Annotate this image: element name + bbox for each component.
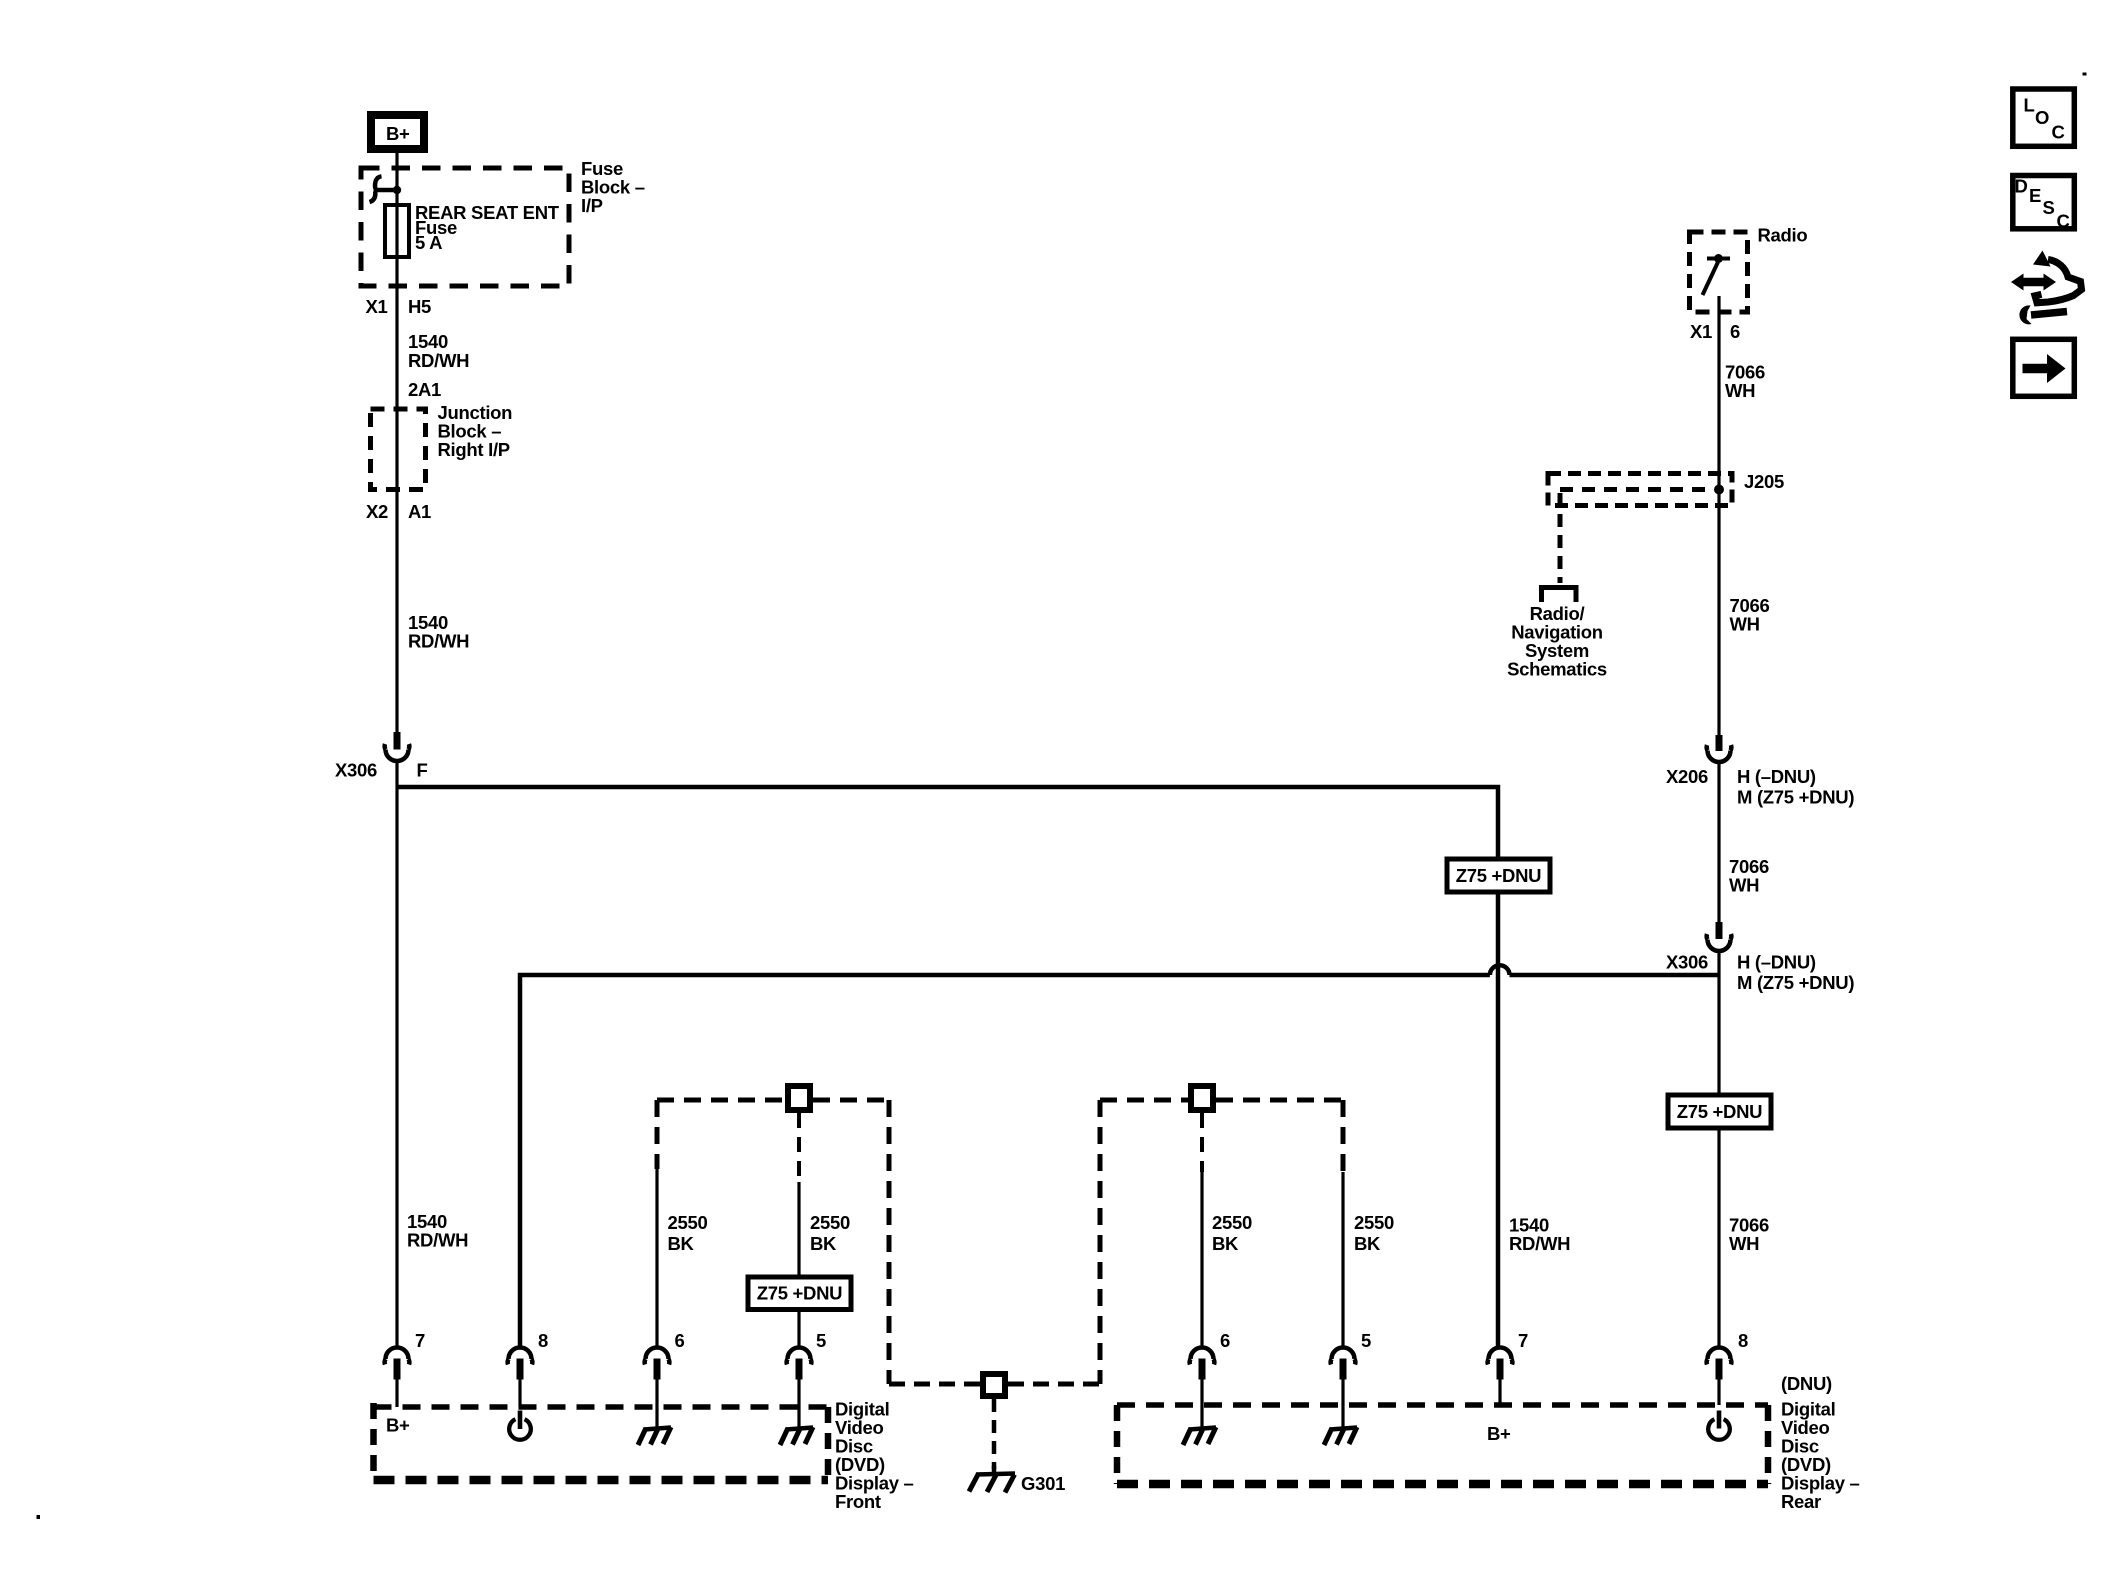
ground symbol rear pin 5 (1324, 1405, 1357, 1445)
svg-text:L: L (2024, 95, 2035, 116)
svg-text:RD/WH: RD/WH (408, 350, 469, 371)
front pin 8 (508, 1330, 548, 1407)
svg-text:6: 6 (1220, 1330, 1230, 1351)
ground G301 (969, 1466, 1065, 1494)
wire Z75 to rear pin 7 (1496, 892, 1501, 1347)
svg-text:2550: 2550 (810, 1212, 850, 1233)
wire fuse block to junction block (395, 287, 398, 493)
wire Z75 box 2 to front pin 5 (797, 1310, 800, 1348)
scan speck top right (2083, 73, 2087, 76)
svg-text:BK: BK (668, 1233, 695, 1254)
svg-text:5: 5 (816, 1330, 826, 1351)
svg-text:H (–DNU): H (–DNU) (1737, 766, 1816, 787)
ground symbol front pin 5 (780, 1407, 813, 1445)
svg-text:E: E (2029, 185, 2041, 206)
svg-text:D: D (2015, 176, 2028, 197)
svg-text:G301: G301 (1021, 1473, 1065, 1494)
svg-text:7: 7 (1518, 1330, 1528, 1351)
svg-text:Front: Front (835, 1491, 881, 1512)
svg-text:M (Z75 +DNU): M (Z75 +DNU) (1737, 787, 1854, 808)
wire branch X306 H to front pin 8 with hop (520, 965, 1719, 1347)
svg-text:8: 8 (1738, 1330, 1748, 1351)
wire label 7066 WH (upper) (1725, 362, 1765, 402)
connector labels X1 H5 (365, 296, 431, 317)
svg-text:WH: WH (1725, 380, 1755, 401)
svg-text:Z75 +DNU: Z75 +DNU (1677, 1101, 1763, 1122)
bus bar tap symbol (370, 176, 402, 202)
wire label 1540 RD/WH (upper) (408, 331, 469, 371)
DVD rear display label (1781, 1399, 1860, 1513)
wire Z75 box 3 to rear pin 8 (1717, 1128, 1720, 1347)
wire branch X306 F to Z75 (horizontal) (397, 787, 1498, 859)
wire label 1540 RD/WH (middle) (408, 612, 469, 652)
svg-text:X1: X1 (1690, 321, 1712, 342)
wire radio to X206 (1717, 296, 1720, 735)
wire label 1540 RD/WH (rear lower) (1509, 1215, 1570, 1255)
wire B+ box to fuse (395, 153, 398, 287)
ground symbol rear pin 6 (1183, 1405, 1216, 1445)
connector labels X2 A1 (366, 501, 431, 522)
wire label 7066 WH (rear lower) (1729, 1215, 1769, 1255)
DESC reference box (2013, 176, 2075, 232)
svg-text:8: 8 (538, 1330, 548, 1351)
wire label 2550 BK (front left) (668, 1212, 708, 1254)
svg-text:S: S (2043, 197, 2055, 218)
svg-text:WH: WH (1729, 875, 1759, 896)
rear pin 8 (1707, 1330, 1748, 1405)
svg-text:2550: 2550 (1212, 1212, 1252, 1233)
svg-text:2A1: 2A1 (408, 379, 441, 400)
svg-text:J205: J205 (1744, 471, 1784, 492)
svg-text:5 A: 5 A (415, 232, 442, 253)
svg-text:1540: 1540 (408, 331, 448, 352)
front pin 7 (385, 1330, 425, 1407)
fuse REAR SEAT ENT 5 A (385, 202, 560, 257)
front pin 6 (645, 1330, 685, 1407)
scan speck bottom left (37, 1515, 41, 1519)
G301 splice box (983, 1374, 1005, 1396)
jump navigation icon (2011, 251, 2082, 325)
svg-text:6: 6 (1730, 321, 1740, 342)
svg-text:O: O (2035, 107, 2049, 128)
connector X306 H (1666, 922, 1854, 993)
svg-text:2550: 2550 (1354, 1212, 1394, 1233)
power symbol front (509, 1411, 531, 1440)
DVD rear display dashed box (1117, 1402, 1768, 1408)
wire junction block to X306 (395, 493, 398, 732)
svg-text:RD/WH: RD/WH (1509, 1233, 1570, 1254)
junction J205 dashed box (1548, 471, 1784, 583)
svg-text:I/P: I/P (581, 195, 603, 216)
connector X306 F (335, 732, 428, 781)
wire rear pin 5 (1341, 1172, 1344, 1347)
rear ground dashed box (1100, 1100, 1343, 1384)
wire X306 H to Z75 box 3 (1717, 952, 1720, 1095)
svg-text:B+: B+ (386, 1415, 410, 1436)
front ground dashed box (657, 1100, 889, 1384)
svg-text:Z75 +DNU: Z75 +DNU (1456, 865, 1542, 886)
svg-text:X1: X1 (365, 296, 387, 317)
svg-text:F: F (417, 760, 428, 781)
radio navigation reference label (1507, 603, 1607, 680)
svg-text:M (Z75 +DNU): M (Z75 +DNU) (1737, 972, 1854, 993)
dashed wire G301 (992, 1399, 997, 1469)
svg-text:Right I/P: Right I/P (438, 439, 510, 460)
forward arrow box (2013, 339, 2075, 396)
svg-text:C: C (2057, 211, 2070, 232)
radio dashed box (1690, 232, 1748, 312)
svg-text:Schematics: Schematics (1507, 659, 1607, 680)
svg-text:WH: WH (1729, 1233, 1759, 1254)
svg-text:BK: BK (810, 1233, 837, 1254)
svg-text:RD/WH: RD/WH (408, 631, 469, 652)
svg-text:B+: B+ (1487, 1423, 1511, 1444)
svg-text:X2: X2 (366, 501, 388, 522)
dashed wire rear splice to pin 6 (1200, 1113, 1204, 1347)
splice box front (788, 1086, 810, 1110)
rear pin 6 (1190, 1330, 1230, 1405)
front pin 5 (787, 1330, 826, 1407)
svg-text:6: 6 (675, 1330, 685, 1351)
fuse block label (581, 158, 645, 216)
svg-text:WH: WH (1730, 614, 1760, 635)
svg-text:X306: X306 (335, 760, 377, 781)
Z75 +DNU box 1 (1447, 859, 1550, 892)
power symbol rear (1708, 1411, 1730, 1440)
wire label 7066 WH (second) (1730, 595, 1770, 635)
svg-text:H5: H5 (408, 296, 431, 317)
wire label 2550 BK (front right) (810, 1212, 850, 1254)
svg-text:5: 5 (1361, 1330, 1371, 1351)
svg-text:Rear: Rear (1781, 1491, 1821, 1512)
wire front pin 6 (655, 1169, 658, 1347)
Z75 +DNU box 2 (748, 1277, 851, 1310)
svg-text:H (–DNU): H (–DNU) (1737, 952, 1816, 973)
wire X206 to X306 (1717, 763, 1720, 922)
wire label 7066 WH (third) (1729, 856, 1769, 896)
svg-text:X306: X306 (1666, 952, 1708, 973)
svg-text:2550: 2550 (668, 1212, 708, 1233)
svg-text:Radio: Radio (1758, 225, 1808, 246)
svg-text:BK: BK (1354, 1233, 1381, 1254)
DVD front display label (835, 1399, 914, 1513)
fuse block I/P dashed box (361, 168, 569, 286)
connector X206 (1666, 735, 1854, 808)
off-page reference bracket (1542, 588, 1577, 603)
rear pin 5 (1331, 1330, 1371, 1405)
svg-text:A1: A1 (408, 501, 431, 522)
junction block right I/P dashed box (371, 409, 426, 490)
svg-text:Z75 +DNU: Z75 +DNU (757, 1283, 843, 1304)
splice box rear (1191, 1086, 1213, 1110)
DVD front display dashed box (374, 1404, 829, 1410)
Z75 +DNU box 3 (1668, 1095, 1771, 1128)
rear pin 7 (1488, 1330, 1528, 1405)
wire label 1540 RD/WH (front lower) (407, 1211, 468, 1251)
ground symbol front pin 6 (638, 1407, 671, 1445)
svg-text:B+: B+ (386, 123, 410, 144)
svg-text:(DNU): (DNU) (1781, 1373, 1832, 1394)
power feed B+ box (371, 115, 424, 149)
svg-text:7: 7 (415, 1330, 425, 1351)
radio internal switch (1703, 254, 1731, 295)
svg-text:BK: BK (1212, 1233, 1239, 1254)
svg-text:X206: X206 (1666, 766, 1708, 787)
wire label 2550 BK (rear right) (1354, 1212, 1394, 1254)
LOC reference box (2013, 89, 2075, 146)
dashed wire front splice to Z75 box 2 (797, 1113, 801, 1277)
ground distribution dashed line to G301 (889, 1382, 1100, 1387)
svg-text:RD/WH: RD/WH (407, 1230, 468, 1251)
wire X306 F down to front pin 7 (395, 762, 398, 1347)
svg-text:C: C (2052, 122, 2065, 143)
wire label 2550 BK (rear left) (1212, 1212, 1252, 1254)
connector labels X1 6 (radio) (1690, 321, 1740, 342)
junction block label (438, 402, 513, 460)
